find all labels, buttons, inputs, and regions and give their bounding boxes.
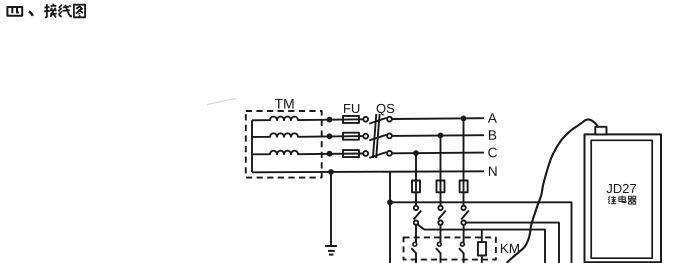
wire tap C down [415,153,417,206]
label KM [501,244,519,253]
label B [489,130,496,139]
junction dot L2 [327,133,333,139]
switch QS pole B [363,134,392,141]
junction dot N ground tap [328,169,334,175]
relay terminal [595,127,606,135]
relay JD27 outer box [585,134,662,262]
glyph dian [619,196,626,203]
glyph si (four) [7,7,22,16]
glyph tu (diagram) [74,5,85,18]
breaker contact pole A [461,206,469,225]
breaker contact pole C [414,206,422,225]
junction dot control bus [387,199,393,205]
wire neutral to ground [330,172,332,246]
fuse QF3 [460,181,468,193]
switch QS pole A [363,117,392,124]
glyph dun comma [29,11,33,15]
label JD27 [607,184,636,193]
wire neutral line [252,171,484,172]
wire coil feed from pole C [417,224,545,263]
contactor KM dashed box [404,237,496,259]
wire pole A to KM [463,225,465,243]
breaker contact pole B [438,206,446,225]
switch QS pole C [363,151,392,158]
wire relay lead curve [507,119,599,263]
wire coil tap [481,230,483,243]
label TM [275,99,294,109]
junction dot L1 [327,117,333,123]
wire control bus N [390,202,572,263]
glyph ji [608,196,616,204]
transformer TM dashed box [246,111,322,178]
label QS [377,104,395,116]
fuse FU2 [343,133,359,140]
fuse QF1 [412,181,420,193]
fuse FU3 [343,150,359,157]
winding L2 [252,133,363,137]
winding L3 [252,151,363,155]
junction dot tap A [461,116,467,122]
ground [325,246,337,255]
contactor contact 1 [411,242,416,263]
wire aux from pole A [466,223,559,263]
contactor contact 2 [436,242,441,263]
label FU [344,104,359,113]
wire phase B [392,134,484,137]
junction dot tap B [438,133,444,139]
glyph jie (connect) [44,4,57,18]
label relay cn [608,196,636,205]
switch QS linkage [373,114,380,158]
label N [489,166,497,175]
wire phase A [392,117,484,120]
smudge [207,99,236,105]
wire tap A down [463,118,465,205]
wire neutral drop [389,172,391,263]
fuse QF2 [437,181,445,193]
junction dot L3 [327,151,333,157]
winding L1 [252,117,363,121]
wire pole B to KM [440,225,442,243]
coil KM [478,242,486,263]
glyph qi [628,196,636,204]
label C [488,148,497,158]
wire pole C to KM [415,225,417,243]
contactor contact 3 [459,242,464,263]
glyph xian (wire) [58,5,71,17]
relay JD27 inner box [591,140,652,258]
title [7,4,85,18]
wire TM left bus [251,120,253,172]
wire phase C [392,152,484,155]
junction dot tap C [413,150,419,156]
wire tap B down [440,136,442,206]
fuse FU1 [343,116,359,123]
label A [488,113,497,122]
